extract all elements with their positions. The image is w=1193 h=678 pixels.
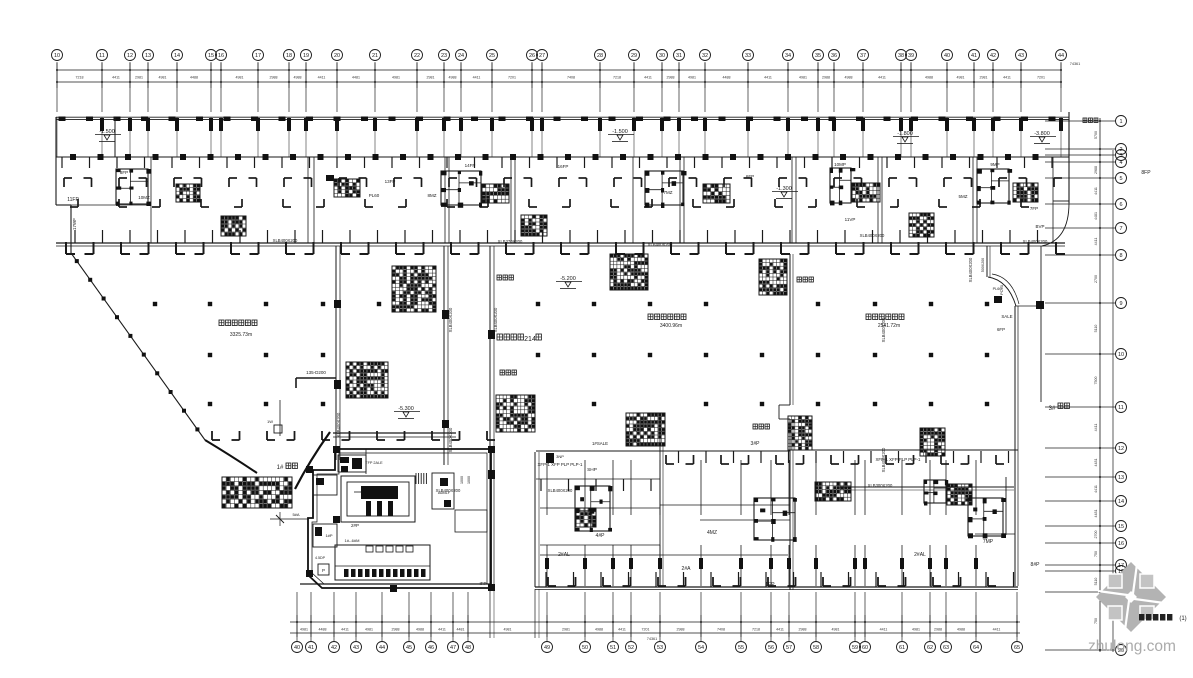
watermark zhulong.com text bbox=[1088, 638, 1176, 655]
svg-text:40: 40 bbox=[294, 645, 300, 651]
svg-text:9: 9 bbox=[1119, 301, 1122, 307]
dark caption text bottom right bbox=[1139, 614, 1187, 622]
svg-text:4411: 4411 bbox=[1094, 238, 1098, 246]
svg-text:4411: 4411 bbox=[764, 76, 772, 80]
svg-text:44: 44 bbox=[379, 645, 385, 651]
svg-text:1#: 1# bbox=[277, 465, 284, 471]
svg-text:6: 6 bbox=[1119, 202, 1122, 208]
svg-text:2981: 2981 bbox=[427, 76, 435, 80]
parking left slanted boundary bbox=[71, 253, 257, 473]
svg-text:A6MLF: A6MLF bbox=[438, 491, 451, 495]
svg-text:10: 10 bbox=[54, 53, 60, 59]
level mark -1.500 b bbox=[608, 129, 634, 142]
svg-text:4481: 4481 bbox=[457, 628, 465, 632]
svg-text:4411: 4411 bbox=[993, 628, 1001, 632]
top band bottom wall bbox=[56, 242, 1065, 254]
svg-text:4MZ: 4MZ bbox=[707, 530, 717, 536]
svg-text:750: 750 bbox=[1094, 618, 1098, 624]
svg-text:54: 54 bbox=[698, 645, 704, 651]
svg-text:34: 34 bbox=[785, 53, 791, 59]
mini dim tick left of pump room bbox=[270, 512, 308, 526]
svg-text:36: 36 bbox=[831, 53, 837, 59]
svg-text:5110: 5110 bbox=[1094, 578, 1098, 586]
svg-text:4981: 4981 bbox=[300, 628, 308, 632]
svg-text:XLB400X200: XLB400X200 bbox=[1023, 239, 1048, 244]
lower band comb stubs top bbox=[541, 451, 1009, 491]
1W marker bbox=[267, 400, 282, 436]
svg-text:45: 45 bbox=[406, 645, 412, 651]
lower core K2 bbox=[754, 498, 797, 542]
svg-text:11: 11 bbox=[1118, 405, 1124, 411]
svg-text:62: 62 bbox=[927, 645, 933, 651]
svg-text:4488: 4488 bbox=[319, 628, 327, 632]
svg-text:1#P: 1#P bbox=[325, 533, 332, 538]
svg-text:49: 49 bbox=[544, 645, 550, 651]
svg-text:4411: 4411 bbox=[878, 76, 886, 80]
svg-text:60: 60 bbox=[862, 645, 868, 651]
stair core block C9 bbox=[977, 169, 1038, 205]
svg-text:43: 43 bbox=[1018, 53, 1024, 59]
svg-text:4981: 4981 bbox=[504, 628, 512, 632]
svg-text:XFP-1 XFP PLP PLP-1: XFP-1 XFP PLP PLP-1 bbox=[538, 462, 584, 467]
svg-text:21: 21 bbox=[372, 53, 378, 59]
svg-text:XLB370X200: XLB370X200 bbox=[498, 239, 523, 244]
svg-text:2988: 2988 bbox=[392, 628, 400, 632]
lower hatch h13 bbox=[947, 484, 972, 505]
svg-text:4411: 4411 bbox=[1094, 424, 1098, 432]
svg-text:23: 23 bbox=[441, 53, 447, 59]
top band labels bbox=[67, 162, 1151, 247]
stair core block C2 bbox=[326, 175, 360, 197]
svg-text:4981: 4981 bbox=[236, 76, 244, 80]
svg-text:11: 11 bbox=[99, 53, 105, 59]
svg-text:35: 35 bbox=[815, 53, 821, 59]
mid hatch H7 bbox=[788, 416, 812, 450]
svg-text:8FP: 8FP bbox=[120, 170, 128, 175]
svg-text:750: 750 bbox=[1094, 551, 1098, 557]
svg-text:SALE: SALE bbox=[1001, 314, 1012, 319]
svg-text:16: 16 bbox=[218, 53, 224, 59]
lower hatch h12 bbox=[815, 482, 851, 501]
svg-text:7MP: 7MP bbox=[983, 539, 994, 545]
svg-text:3#P: 3#P bbox=[751, 441, 761, 447]
watermark pinwheel logo bbox=[1096, 562, 1166, 632]
svg-text:7218: 7218 bbox=[76, 76, 84, 80]
svg-text:1#--6#M: 1#--6#M bbox=[345, 538, 360, 543]
svg-text:2700: 2700 bbox=[1094, 531, 1098, 539]
svg-text:1FP: 1FP bbox=[765, 582, 775, 588]
svg-text:1000: 1000 bbox=[467, 476, 471, 484]
svg-text:3#: 3# bbox=[1049, 406, 1056, 412]
pump room upper cluster bbox=[338, 449, 383, 474]
svg-text:18: 18 bbox=[286, 53, 292, 59]
svg-text:48: 48 bbox=[465, 645, 471, 651]
svg-text:SHP: SHP bbox=[587, 467, 597, 473]
lower band labels bbox=[436, 441, 1040, 588]
svg-text:XLB400X200: XLB400X200 bbox=[548, 488, 573, 493]
svg-text:50: 50 bbox=[582, 645, 588, 651]
svg-text:7218: 7218 bbox=[613, 76, 621, 80]
svg-text:37: 37 bbox=[860, 53, 866, 59]
lobby wall 135-D200 bbox=[296, 370, 336, 388]
svg-text:4981: 4981 bbox=[365, 628, 373, 632]
svg-text:13FP: 13FP bbox=[385, 179, 396, 184]
svg-text:XFP-1 XFP PLP PLP-1: XFP-1 XFP PLP PLP-1 bbox=[876, 457, 922, 462]
top grid bubbles bbox=[52, 50, 1067, 61]
mid hatch H5 bbox=[496, 395, 535, 432]
svg-text:13: 13 bbox=[1118, 475, 1124, 481]
svg-text:12: 12 bbox=[127, 53, 133, 59]
svg-text:8MZ: 8MZ bbox=[428, 193, 437, 198]
svg-text:14FP: 14FP bbox=[465, 163, 476, 168]
lower core K3 bbox=[968, 498, 1006, 538]
svg-text:61: 61 bbox=[899, 645, 905, 651]
parking divider wall x335 bbox=[334, 246, 341, 460]
svg-text:4411: 4411 bbox=[473, 76, 481, 80]
svg-text:8#P: 8#P bbox=[1031, 562, 1041, 568]
right grid bubbles bbox=[1116, 116, 1127, 656]
bottom grid bubbles bbox=[292, 642, 1023, 653]
level mark -5.300 bbox=[394, 406, 420, 419]
svg-text:XLB400X200: XLB400X200 bbox=[968, 257, 973, 282]
top grid vertical lines bbox=[57, 62, 1061, 157]
svg-text:43: 43 bbox=[353, 645, 359, 651]
top band jamb marks row A bbox=[64, 178, 1062, 187]
svg-text:7218: 7218 bbox=[752, 628, 760, 632]
mid hatch H2 bbox=[346, 362, 388, 398]
svg-text:38: 38 bbox=[898, 53, 904, 59]
svg-text:12: 12 bbox=[1118, 446, 1124, 452]
svg-text:17: 17 bbox=[255, 53, 261, 59]
stair core block C3 bbox=[441, 171, 509, 208]
svg-text:27: 27 bbox=[539, 53, 545, 59]
svg-text:57: 57 bbox=[786, 645, 792, 651]
top corridor wall bbox=[56, 117, 1069, 132]
svg-text:24: 24 bbox=[458, 53, 464, 59]
svg-text:25: 25 bbox=[489, 53, 495, 59]
svg-text:PC60: PC60 bbox=[999, 284, 1004, 295]
svg-text:6FP: 6FP bbox=[997, 327, 1005, 332]
pump room outline bbox=[306, 446, 495, 592]
svg-text:7500: 7500 bbox=[1094, 377, 1098, 385]
svg-text:2#AL: 2#AL bbox=[558, 552, 570, 558]
svg-text:2981: 2981 bbox=[135, 76, 143, 80]
svg-text:2988: 2988 bbox=[934, 628, 942, 632]
svg-text:8: 8 bbox=[1119, 253, 1122, 259]
svg-text:41: 41 bbox=[308, 645, 314, 651]
svg-text:214: 214 bbox=[524, 336, 536, 343]
svg-text:7FP: 7FP bbox=[1030, 206, 1038, 211]
mid hatch H4 bbox=[759, 259, 787, 295]
level mark -5.200 bbox=[556, 276, 582, 289]
pump room right rooms bbox=[416, 473, 487, 532]
parking column dots bbox=[153, 302, 989, 406]
mid hatch H3 bbox=[610, 254, 648, 290]
svg-text:XLB400X200: XLB400X200 bbox=[881, 317, 886, 342]
svg-text:XLB400X200: XLB400X200 bbox=[273, 238, 298, 243]
svg-text:16FP: 16FP bbox=[558, 164, 569, 169]
svg-text:2#AL: 2#AL bbox=[914, 552, 926, 558]
parking area labels bbox=[219, 118, 1098, 472]
svg-text:3: 3 bbox=[1119, 153, 1122, 159]
svg-text:4411: 4411 bbox=[618, 628, 626, 632]
svg-text:5: 5 bbox=[1119, 176, 1122, 182]
right grid dimension line bbox=[1045, 118, 1115, 652]
svg-text:2700: 2700 bbox=[1094, 275, 1098, 283]
svg-text:8FP: 8FP bbox=[1141, 170, 1151, 176]
svg-text:10: 10 bbox=[1118, 352, 1124, 358]
svg-text:XLB400X200: XLB400X200 bbox=[493, 307, 498, 332]
svg-text:74361: 74361 bbox=[1070, 62, 1081, 66]
lower band top edges bbox=[333, 433, 1018, 479]
svg-text:52: 52 bbox=[628, 645, 634, 651]
svg-text:30: 30 bbox=[659, 53, 665, 59]
level mark -1.500 bbox=[95, 129, 121, 142]
lower band comb stubs bottom bbox=[546, 572, 1014, 587]
svg-text:74361: 74361 bbox=[647, 637, 658, 641]
svg-text:4981: 4981 bbox=[912, 628, 920, 632]
mid hatch H1 bbox=[392, 266, 436, 312]
svg-text:41: 41 bbox=[971, 53, 977, 59]
ramp lane bbox=[490, 452, 539, 638]
svg-text:2988: 2988 bbox=[799, 628, 807, 632]
svg-text:4988: 4988 bbox=[957, 628, 965, 632]
lower band mid walls bbox=[540, 477, 1015, 555]
svg-text:4988: 4988 bbox=[449, 76, 457, 80]
svg-text:2988: 2988 bbox=[677, 628, 685, 632]
driveway curve B bbox=[295, 432, 330, 489]
svg-text:19: 19 bbox=[303, 53, 309, 59]
svg-text:47: 47 bbox=[450, 645, 456, 651]
svg-text:7201: 7201 bbox=[508, 76, 516, 80]
svg-text:5700: 5700 bbox=[1094, 131, 1098, 139]
svg-text:42: 42 bbox=[990, 53, 996, 59]
svg-text:64: 64 bbox=[973, 645, 979, 651]
svg-text:5MZ: 5MZ bbox=[959, 194, 968, 199]
top band comb stubs from corridor wall bbox=[62, 157, 1052, 168]
svg-text:(1): (1) bbox=[1179, 616, 1186, 622]
parking divider wall x444 bbox=[442, 246, 449, 465]
svg-text:4988: 4988 bbox=[416, 628, 424, 632]
svg-text:11VP: 11VP bbox=[845, 217, 856, 222]
svg-text:59: 59 bbox=[852, 645, 858, 651]
svg-text:4981: 4981 bbox=[159, 76, 167, 80]
ramp label 1# bbox=[277, 463, 298, 471]
svg-text:PL60: PL60 bbox=[369, 193, 380, 198]
left bottom hatch H9 bbox=[222, 477, 292, 508]
pump room bottom tank row bbox=[335, 538, 430, 580]
lower band bottom wall bbox=[300, 577, 1018, 590]
svg-text:4981: 4981 bbox=[688, 76, 696, 80]
svg-text:2981: 2981 bbox=[980, 76, 988, 80]
svg-text:2988: 2988 bbox=[667, 76, 675, 80]
svg-text:4.5DP: 4.5DP bbox=[315, 556, 326, 560]
svg-text:2981: 2981 bbox=[562, 628, 570, 632]
svg-text:4488: 4488 bbox=[723, 76, 731, 80]
svg-text:42: 42 bbox=[331, 645, 337, 651]
svg-text:26: 26 bbox=[529, 53, 535, 59]
svg-text:IFP: IFP bbox=[479, 581, 486, 586]
bottom dimension lines bbox=[290, 615, 1020, 641]
svg-text:4488: 4488 bbox=[190, 76, 198, 80]
svg-text:46: 46 bbox=[428, 645, 434, 651]
lower band jamb marks row bbox=[666, 455, 1004, 464]
svg-text:22: 22 bbox=[414, 53, 420, 59]
svg-text:2#A: 2#A bbox=[682, 566, 692, 572]
svg-text:4411: 4411 bbox=[880, 628, 888, 632]
stair core block C4 bbox=[221, 216, 246, 236]
mid hatch H8 bbox=[920, 428, 945, 456]
top band unit divider walls bbox=[56, 112, 1069, 253]
small rooms below H9 bbox=[292, 512, 299, 517]
svg-text:7MZ: 7MZ bbox=[664, 190, 673, 195]
svg-text:XLB400X200: XLB400X200 bbox=[860, 233, 885, 238]
svg-text:4411: 4411 bbox=[438, 628, 446, 632]
svg-text:4981: 4981 bbox=[392, 76, 400, 80]
svg-text:10MZ: 10MZ bbox=[138, 195, 150, 200]
svg-text:4411: 4411 bbox=[341, 628, 349, 632]
svg-text:4411: 4411 bbox=[1094, 187, 1098, 195]
svg-text:135-D200: 135-D200 bbox=[306, 370, 326, 375]
ramp wall x490 bbox=[488, 246, 495, 587]
svg-text:4988: 4988 bbox=[595, 628, 603, 632]
stair core block C7 bbox=[830, 168, 880, 205]
svg-text:9MP: 9MP bbox=[990, 162, 999, 167]
level mark -1.300 bbox=[772, 186, 798, 199]
svg-text:7: 7 bbox=[1119, 226, 1122, 232]
svg-text:14: 14 bbox=[174, 53, 180, 59]
svg-text:2#P: 2#P bbox=[351, 523, 359, 528]
svg-text:29: 29 bbox=[631, 53, 637, 59]
svg-text:XLB400X200: XLB400X200 bbox=[448, 307, 453, 332]
svg-text:7201: 7201 bbox=[642, 628, 650, 632]
svg-text:4988: 4988 bbox=[845, 76, 853, 80]
svg-text:P: P bbox=[322, 568, 325, 573]
stair core block C6 bbox=[645, 171, 730, 208]
svg-text:14: 14 bbox=[1118, 499, 1124, 505]
svg-text:16: 16 bbox=[1118, 541, 1124, 547]
svg-text:11FP: 11FP bbox=[67, 197, 79, 203]
bottom grid vertical lines bbox=[297, 592, 1017, 641]
svg-text:10MP: 10MP bbox=[834, 162, 846, 167]
mid hatch H6 bbox=[626, 413, 665, 446]
svg-text:1W: 1W bbox=[267, 419, 273, 424]
svg-text:1#SALE: 1#SALE bbox=[592, 441, 608, 446]
svg-text:17WF: 17WF bbox=[72, 218, 77, 230]
svg-text:63: 63 bbox=[943, 645, 949, 651]
svg-text:56: 56 bbox=[768, 645, 774, 651]
svg-text:33: 33 bbox=[745, 53, 751, 59]
svg-text:2988: 2988 bbox=[822, 76, 830, 80]
lower cluster near h13 bbox=[924, 480, 948, 506]
svg-text:4481: 4481 bbox=[352, 76, 360, 80]
svg-text:4411: 4411 bbox=[776, 628, 784, 632]
level mark -3.800 bbox=[1030, 131, 1056, 144]
svg-text:7201: 7201 bbox=[1037, 76, 1045, 80]
svg-text:XLB300X200: XLB300X200 bbox=[868, 483, 893, 488]
level mark -1.800 bbox=[893, 131, 919, 144]
svg-text:4411: 4411 bbox=[112, 76, 120, 80]
svg-text:4981: 4981 bbox=[957, 76, 965, 80]
pump room center machine bbox=[341, 476, 415, 528]
top band jamb marks row B bbox=[70, 199, 1029, 207]
stair core block C1 bbox=[116, 169, 200, 206]
pump room left rooms bbox=[313, 475, 337, 575]
svg-text:4988: 4988 bbox=[925, 76, 933, 80]
svg-text:65: 65 bbox=[1014, 645, 1020, 651]
svg-text:4411: 4411 bbox=[1094, 485, 1098, 493]
svg-text:5#A: 5#A bbox=[292, 512, 299, 517]
svg-text:1000: 1000 bbox=[460, 476, 464, 484]
svg-text:XLB400X200: XLB400X200 bbox=[648, 242, 673, 247]
svg-text:3325.73m: 3325.73m bbox=[230, 332, 252, 338]
svg-text:500X200: 500X200 bbox=[981, 258, 985, 272]
svg-text:3400.96m: 3400.96m bbox=[660, 323, 682, 329]
parking3 right exit lane bbox=[981, 203, 1069, 586]
svg-text:4#P: 4#P bbox=[596, 533, 606, 539]
svg-text:55: 55 bbox=[738, 645, 744, 651]
svg-text:51: 51 bbox=[610, 645, 616, 651]
parking bottom jamb marks bbox=[212, 431, 495, 440]
svg-text:2988: 2988 bbox=[270, 76, 278, 80]
svg-text:4411: 4411 bbox=[1003, 76, 1011, 80]
svg-text:32: 32 bbox=[702, 53, 708, 59]
stair core block C8 bbox=[909, 213, 934, 237]
svg-text:4: 4 bbox=[1119, 160, 1122, 166]
svg-text:2988: 2988 bbox=[1094, 166, 1098, 174]
svg-text:7408: 7408 bbox=[567, 76, 575, 80]
top band comb stubs from bottom wall bbox=[75, 230, 1038, 243]
lower band unit divider walls bbox=[545, 460, 978, 586]
svg-text:20: 20 bbox=[334, 53, 340, 59]
svg-text:39: 39 bbox=[908, 53, 914, 59]
svg-text:5110: 5110 bbox=[1094, 325, 1098, 333]
svg-text:4981: 4981 bbox=[799, 76, 807, 80]
svg-text:15: 15 bbox=[208, 53, 214, 59]
svg-text:4481: 4481 bbox=[1094, 212, 1098, 220]
lower core K1 bbox=[575, 486, 612, 532]
svg-text:53: 53 bbox=[657, 645, 663, 651]
svg-text:40: 40 bbox=[944, 53, 950, 59]
svg-text:6FP: 6FP bbox=[746, 174, 754, 179]
top band left inner wall bbox=[114, 117, 116, 157]
svg-text:7408: 7408 bbox=[717, 628, 725, 632]
parking divider wall x792 bbox=[779, 254, 793, 590]
svg-text:1: 1 bbox=[1119, 119, 1122, 125]
svg-text:4481: 4481 bbox=[1094, 459, 1098, 467]
svg-text:4988: 4988 bbox=[294, 76, 302, 80]
svg-text:28: 28 bbox=[597, 53, 603, 59]
svg-text:4411: 4411 bbox=[644, 76, 652, 80]
svg-text:13: 13 bbox=[145, 53, 151, 59]
svg-text:BVP: BVP bbox=[1035, 224, 1044, 229]
svg-text:zhulong.com: zhulong.com bbox=[1088, 638, 1176, 655]
svg-text:44: 44 bbox=[1058, 53, 1064, 59]
svg-text:31: 31 bbox=[676, 53, 682, 59]
top dimension lines bbox=[56, 62, 1080, 88]
svg-text:TFP 2ALE: TFP 2ALE bbox=[365, 461, 383, 465]
svg-text:15: 15 bbox=[1118, 524, 1124, 530]
svg-text:58: 58 bbox=[813, 645, 819, 651]
stair core block C5 bbox=[521, 215, 547, 236]
svg-text:4481: 4481 bbox=[1094, 510, 1098, 518]
svg-text:3NP: 3NP bbox=[556, 454, 564, 459]
svg-text:4981: 4981 bbox=[832, 628, 840, 632]
parking divider wall x661 lower bbox=[660, 413, 663, 587]
right section leader ticks bbox=[1049, 117, 1070, 412]
svg-text:4411: 4411 bbox=[318, 76, 326, 80]
